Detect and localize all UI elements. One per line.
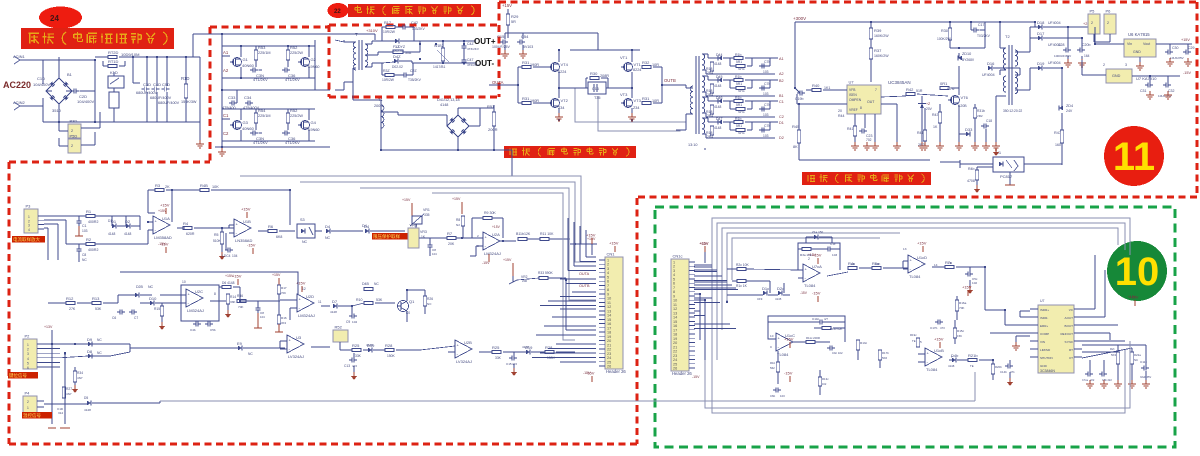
- svg-text:3: 3: [1125, 63, 1127, 67]
- svg-text:B11b12K: B11b12K: [516, 232, 531, 236]
- svg-text:B1: B1: [67, 72, 73, 77]
- svg-text:D4: D4: [362, 224, 367, 228]
- svg-text:103: 103: [763, 113, 769, 117]
- svg-text:B2: B2: [779, 79, 784, 83]
- svg-text:OUTA: OUTA: [579, 272, 590, 276]
- svg-text:2: 2: [808, 257, 810, 261]
- svg-text:4/7: 4/7: [824, 317, 828, 321]
- svg-text:4148: 4148: [124, 232, 132, 236]
- svg-text:1: 1: [27, 406, 29, 410]
- svg-text:335: 335: [424, 213, 430, 217]
- svg-text:4: 4: [28, 228, 30, 232]
- svg-text:R28: R28: [385, 343, 393, 348]
- svg-text:C19b: C19b: [795, 97, 803, 101]
- svg-text:R31: R31: [522, 60, 530, 65]
- svg-text:2: 2: [1103, 63, 1105, 67]
- svg-text:5: 5: [27, 361, 29, 365]
- svg-text:K9N60: K9N60: [308, 128, 320, 132]
- svg-text:P3: P3: [26, 204, 32, 209]
- svg-text:D33: D33: [965, 127, 973, 132]
- svg-text:475/400V: 475/400V: [243, 106, 260, 110]
- svg-text:UF4004: UF4004: [1048, 21, 1061, 25]
- svg-text:C1: C1: [82, 224, 87, 228]
- svg-text:VIN: VIN: [1040, 340, 1045, 344]
- svg-text:C47: C47: [467, 58, 474, 62]
- svg-text:D4B: D4B: [362, 282, 370, 286]
- svg-text:VR3: VR3: [420, 230, 427, 234]
- svg-text:3K3: 3K3: [281, 321, 286, 325]
- svg-text:G3: G3: [243, 120, 249, 125]
- svg-text:4148: 4148: [366, 343, 373, 347]
- svg-text:D2: D2: [779, 136, 784, 140]
- svg-text:4148: 4148: [714, 62, 722, 66]
- svg-text:D5: D5: [84, 396, 88, 400]
- svg-text:4148: 4148: [330, 310, 337, 314]
- svg-text:P5D: P5D: [70, 134, 78, 139]
- svg-text:K9N60: K9N60: [308, 65, 320, 69]
- svg-text:70K: 70K: [238, 305, 243, 309]
- svg-text:51R: 51R: [916, 89, 923, 93]
- svg-text:R30: R30: [941, 29, 948, 33]
- svg-text:D6 4148: D6 4148: [222, 281, 235, 285]
- svg-text:R7: R7: [447, 231, 453, 236]
- svg-text:GND: GND: [1133, 50, 1141, 54]
- svg-text:D19: D19: [1037, 61, 1045, 66]
- svg-text:R4B: R4B: [200, 183, 208, 188]
- svg-text:162: 162: [822, 382, 827, 386]
- svg-text:5K3: 5K3: [1111, 353, 1116, 357]
- svg-text:D17: D17: [1037, 31, 1045, 36]
- svg-text:D46: D46: [716, 96, 723, 100]
- svg-text:Vin: Vin: [1127, 42, 1132, 46]
- svg-text:680UF/400V: 680UF/400V: [136, 91, 158, 95]
- svg-text:SHUTDN: SHUTDN: [1040, 356, 1053, 360]
- svg-text:680UF/400V: 680UF/400V: [158, 101, 180, 105]
- svg-text:R1b: R1b: [735, 96, 742, 100]
- svg-text:R1D: R1D: [181, 76, 189, 81]
- svg-text:P2: P2: [25, 334, 31, 339]
- svg-text:R4b: R4b: [968, 167, 975, 171]
- svg-text:+15V: +15V: [812, 253, 822, 258]
- svg-text:24: 24: [50, 14, 59, 23]
- svg-text:Q1: Q1: [409, 299, 415, 304]
- svg-text:9: 9: [770, 345, 772, 349]
- svg-text:3: 3: [27, 352, 29, 356]
- svg-text:NC: NC: [148, 285, 154, 289]
- svg-text:R19c: R19c: [910, 333, 917, 337]
- svg-text:A2: A2: [223, 68, 229, 73]
- svg-text:W1B2: W1B2: [434, 44, 444, 48]
- svg-text:0R1: 0R1: [940, 81, 948, 86]
- svg-text:C6: C6: [112, 316, 116, 320]
- svg-text:4148: 4148: [108, 232, 116, 236]
- svg-text:TE: TE: [912, 339, 916, 343]
- svg-text:C15: C15: [497, 34, 505, 39]
- svg-text:P5: P5: [1090, 9, 1096, 14]
- svg-text:1K1: 1K1: [824, 86, 830, 90]
- svg-text:C20b: C20b: [1082, 43, 1090, 47]
- svg-text:限压保护取样: 限压保护取样: [373, 233, 400, 240]
- svg-text:D4Z: D4Z: [393, 54, 401, 59]
- svg-text:+310V: +310V: [366, 28, 378, 33]
- svg-text:5R: 5R: [511, 20, 516, 24]
- svg-text:10R: 10R: [652, 63, 659, 67]
- svg-text:104/400V: 104/400V: [77, 99, 94, 104]
- svg-text:C8b 222: C8b 222: [1102, 378, 1112, 382]
- svg-text:NC: NC: [248, 352, 253, 356]
- svg-text:475/400: 475/400: [222, 106, 236, 110]
- svg-text:6: 6: [27, 366, 29, 370]
- svg-text:26: 26: [673, 367, 677, 371]
- svg-text:P6: P6: [1106, 9, 1112, 14]
- svg-text:R25: R25: [352, 343, 360, 348]
- svg-text:103: 103: [763, 134, 769, 138]
- svg-text:400R2: 400R2: [88, 220, 98, 224]
- svg-text:U6 KA7815: U6 KA7815: [1128, 32, 1150, 37]
- svg-text:225/2W: 225/2W: [290, 51, 303, 55]
- svg-text:REFOUT: REFOUT: [1060, 332, 1073, 336]
- svg-text:8: 8: [214, 292, 216, 296]
- svg-text:VT6: VT6: [961, 95, 969, 100]
- svg-text:103: 103: [780, 394, 785, 398]
- svg-text:R37: R37: [874, 48, 882, 53]
- svg-text:225/2W: 225/2W: [290, 114, 303, 118]
- svg-text:C2: C2: [223, 131, 229, 136]
- svg-text:D44: D44: [716, 53, 723, 57]
- svg-text:103: 103: [763, 92, 769, 96]
- svg-text:NC: NC: [82, 258, 87, 262]
- svg-text:13:10: 13:10: [688, 143, 697, 147]
- svg-text:VT1: VT1: [634, 62, 642, 67]
- svg-text:R17: R17: [384, 21, 391, 25]
- svg-text:A2: A2: [779, 72, 784, 76]
- svg-text:ZD10: ZD10: [962, 52, 971, 56]
- svg-text:AOUT: AOUT: [1065, 316, 1074, 320]
- svg-text:T: T: [355, 32, 358, 37]
- svg-text:GND: GND: [1040, 364, 1048, 368]
- svg-text:20: 20: [838, 109, 842, 113]
- svg-text:T2: T2: [1005, 34, 1010, 39]
- svg-text:BOUT: BOUT: [1065, 324, 1074, 328]
- svg-text:-15V: -15V: [586, 371, 595, 376]
- svg-text:R33 590K: R33 590K: [538, 271, 553, 275]
- svg-text:R20b: R20b: [995, 365, 1002, 369]
- svg-text:10K: 10K: [875, 262, 880, 266]
- svg-text:5R1: 5R1: [736, 103, 742, 107]
- svg-text:1K: 1K: [933, 125, 938, 129]
- svg-text:LV324AJ: LV324AJ: [288, 354, 304, 359]
- svg-text:U1cD: U1cD: [917, 255, 927, 260]
- svg-text:R42: R42: [906, 87, 914, 92]
- svg-text:4148: 4148: [440, 103, 448, 107]
- svg-text:R28: R28: [545, 345, 553, 350]
- svg-text:NC: NC: [302, 240, 308, 244]
- svg-text:U1cB: U1cB: [934, 348, 944, 353]
- svg-text:C7b: C7b: [764, 82, 771, 86]
- svg-text:+15V: +15V: [160, 203, 170, 208]
- svg-text:2K: 2K: [851, 262, 855, 266]
- svg-text:24V: 24V: [1066, 109, 1073, 113]
- svg-text:CN1c: CN1c: [673, 254, 683, 259]
- svg-text:R22a: R22a: [1134, 353, 1141, 357]
- svg-text:R17b: R17b: [882, 351, 889, 355]
- svg-text:R2: R2: [86, 237, 92, 242]
- svg-text:104: 104: [232, 254, 238, 258]
- svg-text:4148: 4148: [714, 84, 722, 88]
- svg-text:U7: U7: [849, 80, 855, 85]
- svg-text:+15V: +15V: [492, 225, 501, 229]
- svg-text:22: 22: [334, 9, 341, 15]
- svg-text:4N7: 4N7: [66, 392, 72, 396]
- svg-text:471: 471: [1010, 370, 1015, 374]
- svg-text:R14: R14: [230, 295, 236, 299]
- svg-text:150K/3W: 150K/3W: [181, 100, 197, 104]
- svg-text:C1: C1: [223, 113, 229, 118]
- svg-text:4145: 4145: [775, 297, 782, 301]
- svg-text:4148: 4148: [714, 126, 722, 130]
- svg-text:U2B: U2B: [464, 340, 472, 345]
- svg-text:473: 473: [940, 326, 945, 330]
- svg-text:D4: D4: [325, 224, 331, 229]
- svg-text:CT: CT: [1069, 356, 1073, 360]
- svg-text:VT3: VT3: [620, 92, 628, 97]
- svg-text:OMPEN: OMPEN: [849, 98, 862, 102]
- svg-text:NC: NC: [97, 351, 102, 355]
- svg-text:+15V: +15V: [502, 3, 512, 8]
- svg-text:R8: R8: [456, 218, 460, 222]
- svg-text:C4Z: C4Z: [467, 42, 475, 46]
- svg-text:4T2/2KV: 4T2/2KV: [467, 63, 480, 67]
- svg-text:D1: D1: [779, 121, 784, 125]
- svg-text:20K: 20K: [448, 242, 455, 246]
- svg-text:R29: R29: [511, 14, 519, 19]
- svg-text:P3D: P3D: [70, 119, 78, 124]
- svg-text:222: 222: [1090, 378, 1095, 382]
- svg-text:U7 KA7910: U7 KA7910: [1136, 76, 1157, 81]
- svg-text:680UF/400V: 680UF/400V: [150, 96, 172, 100]
- svg-text:SR1: SR1: [738, 89, 745, 93]
- svg-text:D02-02: D02-02: [393, 49, 404, 53]
- svg-text:T03/2KV: T03/2KV: [977, 34, 991, 38]
- svg-text:Header 26: Header 26: [672, 371, 692, 376]
- svg-text:R26: R26: [427, 297, 433, 301]
- svg-text:OUT: OUT: [867, 100, 875, 104]
- svg-text:2: 2: [27, 348, 29, 352]
- svg-text:SR1: SR1: [738, 110, 745, 114]
- svg-text:+15V: +15V: [917, 241, 927, 246]
- svg-text:C16: C16: [592, 87, 599, 91]
- svg-text:VR1: VR1: [423, 208, 430, 212]
- svg-text:+15V: +15V: [934, 337, 944, 342]
- svg-text:4T1/2KV: 4T1/2KV: [253, 78, 268, 82]
- svg-text:R1b: R1b: [735, 75, 742, 79]
- svg-text:702: 702: [866, 138, 872, 142]
- svg-text:C9: C9: [346, 320, 350, 324]
- svg-text:10R/2W: 10R/2W: [383, 30, 396, 34]
- svg-text:R12: R12: [66, 296, 74, 301]
- svg-text:ISDR-: ISDR-: [1040, 316, 1048, 320]
- svg-text:C4b: C4b: [190, 328, 196, 332]
- svg-text:UF4004: UF4004: [1048, 61, 1061, 65]
- svg-text:C9c 102: C9c 102: [832, 351, 843, 355]
- svg-text:N2: N2: [456, 223, 460, 227]
- svg-text:1: 1: [27, 343, 29, 347]
- svg-text:100K/2W: 100K/2W: [937, 37, 951, 41]
- svg-text:R31: R31: [642, 96, 650, 101]
- svg-text:2R2: 2R2: [977, 114, 983, 118]
- svg-text:C15: C15: [506, 362, 512, 366]
- svg-text:C18: C18: [986, 119, 992, 123]
- svg-text:G1: G1: [243, 57, 249, 62]
- svg-text:Vout: Vout: [1143, 42, 1150, 46]
- svg-text:4148: 4148: [522, 345, 529, 349]
- svg-text:C8: C8: [82, 253, 86, 257]
- svg-text:VR3: VR3: [410, 223, 419, 228]
- svg-text:Z34: Z34: [633, 106, 640, 110]
- svg-text:104: 104: [260, 315, 265, 319]
- svg-text:D41/12,13,18: D41/12,13,18: [437, 98, 460, 102]
- svg-text:RT2D: RT2D: [108, 50, 118, 55]
- svg-text:RT1D: RT1D: [108, 59, 118, 64]
- svg-text:5V103: 5V103: [523, 45, 533, 49]
- svg-text:53K: 53K: [376, 298, 383, 302]
- svg-text:A1: A1: [223, 50, 229, 55]
- svg-text:R13c: R13c: [822, 377, 829, 381]
- svg-text:R31: R31: [522, 96, 530, 101]
- svg-text:+300V: +300V: [793, 16, 806, 21]
- svg-text:4708: 4708: [967, 179, 975, 183]
- svg-text:R3Z: R3Z: [383, 69, 391, 73]
- svg-text:C28: C28: [1058, 43, 1065, 47]
- svg-text:208R: 208R: [600, 74, 609, 78]
- svg-text:2K: 2K: [165, 185, 170, 189]
- svg-text:C4D: C4D: [153, 82, 161, 87]
- svg-text:-15V: -15V: [692, 375, 700, 379]
- svg-text:VT3: VT3: [634, 98, 642, 103]
- svg-text:200:1: 200:1: [374, 104, 383, 108]
- svg-text:190R: 190R: [530, 63, 539, 67]
- svg-text:R3a 10K: R3a 10K: [800, 253, 812, 257]
- svg-text:U1A: U1A: [162, 216, 170, 221]
- svg-text:R1c 1K: R1c 1K: [736, 284, 748, 288]
- svg-text:温控信号: 温控信号: [23, 412, 41, 419]
- svg-text:U2C: U2C: [195, 289, 203, 294]
- svg-text:R13: R13: [92, 296, 100, 301]
- svg-text:164: 164: [1084, 54, 1090, 58]
- svg-text:103: 103: [82, 229, 88, 233]
- svg-text:D02-02: D02-02: [392, 65, 403, 69]
- svg-text:D8: D8: [87, 349, 93, 354]
- svg-text:5R1: 5R1: [736, 82, 742, 86]
- svg-text:TE: TE: [970, 364, 974, 368]
- svg-text:C17b: C17b: [930, 326, 938, 330]
- svg-text:+15V: +15V: [586, 233, 596, 238]
- svg-text:R39: R39: [874, 28, 882, 33]
- svg-text:-15V: -15V: [812, 291, 821, 296]
- svg-text:TL084: TL084: [777, 352, 789, 357]
- svg-text:电流取样放大: 电流取样放大: [13, 236, 40, 243]
- svg-text:-15V: -15V: [160, 242, 169, 247]
- svg-text:3C3846N: 3C3846N: [1040, 369, 1055, 373]
- svg-text:U1B: U1B: [243, 219, 251, 224]
- svg-text:ZD4: ZD4: [1066, 104, 1073, 108]
- svg-text:1K: 1K: [948, 261, 952, 265]
- svg-text:R11 10K: R11 10K: [540, 232, 554, 236]
- svg-text:11: 11: [1113, 135, 1155, 179]
- svg-text:LM358AD: LM358AD: [154, 235, 172, 240]
- svg-text:R2c 10K: R2c 10K: [736, 263, 749, 267]
- svg-text:33K: 33K: [230, 300, 235, 304]
- svg-text:10: 10: [770, 334, 774, 338]
- svg-text:R6: R6: [268, 224, 274, 229]
- svg-text:R11c 200R: R11c 200R: [806, 336, 820, 340]
- svg-text:VREF: VREF: [849, 108, 858, 112]
- svg-text:R15: R15: [154, 307, 160, 311]
- svg-text:33K: 33K: [495, 356, 502, 360]
- svg-text:UC3845AN: UC3845AN: [888, 80, 911, 85]
- svg-text:20V: 20V: [926, 107, 933, 111]
- svg-text:10D9/10M: 10D9/10M: [121, 52, 139, 57]
- svg-text:T35: T35: [594, 96, 601, 100]
- svg-text:C3D: C3D: [143, 82, 151, 87]
- svg-text:VT2: VT2: [561, 98, 569, 103]
- svg-text:R21b: R21b: [968, 353, 978, 358]
- svg-text:C6b: C6b: [770, 394, 776, 398]
- svg-text:SYNC: SYNC: [1065, 340, 1074, 344]
- svg-text:U7: U7: [1040, 299, 1045, 303]
- svg-text:2: 2: [27, 400, 29, 404]
- svg-text:103: 103: [832, 253, 837, 257]
- svg-text:C34: C34: [244, 95, 252, 100]
- svg-text:R1: R1: [86, 209, 92, 214]
- svg-text:C13: C13: [344, 364, 350, 368]
- svg-text:NC: NC: [1134, 358, 1138, 362]
- svg-text:-15V: -15V: [784, 371, 793, 376]
- svg-text:Header 26: Header 26: [606, 369, 626, 374]
- svg-text:+15V: +15V: [784, 337, 794, 342]
- svg-text:13: 13: [903, 247, 907, 251]
- svg-text:-15V: -15V: [247, 243, 256, 248]
- svg-text:15K: 15K: [957, 334, 962, 338]
- svg-text:6K8: 6K8: [276, 235, 282, 239]
- svg-text:R47: R47: [1054, 131, 1061, 135]
- svg-text:SR1: SR1: [738, 67, 745, 71]
- svg-text:C2Z: C2Z: [410, 69, 418, 73]
- svg-text:R13c: R13c: [860, 341, 868, 345]
- svg-text:+15V: +15V: [587, 237, 596, 241]
- svg-text:R40: R40: [812, 83, 820, 88]
- svg-text:SR1: SR1: [738, 131, 745, 135]
- svg-text:C2: C2: [779, 115, 784, 119]
- svg-text:LDC4: LDC4: [222, 254, 231, 258]
- svg-text:OUTA: OUTA: [492, 80, 504, 85]
- svg-text:+13V: +13V: [44, 325, 53, 329]
- svg-text:Z1a 150: Z1a 150: [812, 230, 823, 234]
- svg-text:160K/2W: 160K/2W: [874, 54, 889, 58]
- svg-text:ISDR+: ISDR+: [1040, 308, 1049, 312]
- svg-text:A1: A1: [779, 57, 784, 61]
- svg-text:4148: 4148: [714, 105, 722, 109]
- svg-text:PC817: PC817: [1000, 174, 1013, 179]
- svg-text:CN1: CN1: [607, 252, 616, 257]
- svg-text:5: 5: [920, 340, 922, 344]
- svg-text:GND: GND: [1112, 74, 1121, 78]
- svg-text:G4: G4: [311, 120, 317, 125]
- svg-text:R10: R10: [356, 298, 363, 302]
- svg-text:-15V: -15V: [1183, 71, 1191, 75]
- svg-text:150K: 150K: [387, 354, 396, 358]
- svg-text:F1Z: F1Z: [393, 45, 400, 49]
